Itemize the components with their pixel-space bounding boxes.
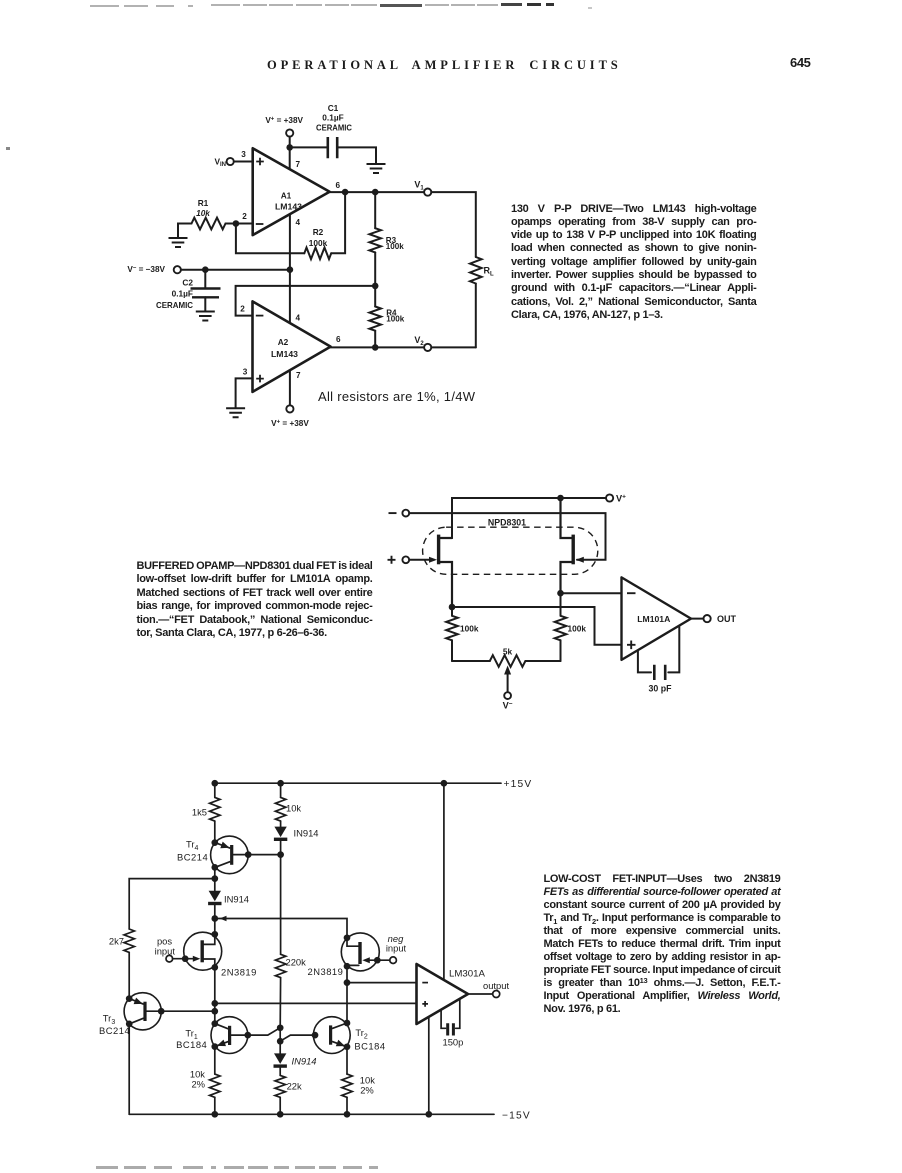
NPD8301 dual-FET package (dashed) bbox=[423, 527, 598, 574]
svg-text:LM101A: LM101A bbox=[637, 615, 670, 624]
svg-text:input: input bbox=[155, 946, 176, 957]
svg-text:−15V: −15V bbox=[502, 1110, 531, 1121]
wire Tr4 base bbox=[233, 854, 280, 856]
caption 3: LOW-COST FET-INPUT bbox=[544, 873, 781, 1016]
svg-text:4: 4 bbox=[296, 314, 301, 323]
resistor 100k (left) bbox=[451, 607, 453, 616]
wire Tr1 base bbox=[231, 1028, 280, 1035]
node neg source bbox=[344, 979, 351, 986]
svg-text:V+: V+ bbox=[616, 494, 626, 504]
svg-text:Tr4: Tr4 bbox=[186, 839, 199, 853]
svg-text:LM301A: LM301A bbox=[449, 969, 486, 979]
node right source bbox=[557, 590, 564, 597]
wire bbox=[214, 867, 216, 890]
ground (A2 pin3) bbox=[226, 408, 245, 417]
V+ terminal (bottom, +38V) bbox=[286, 405, 293, 412]
capacitor C2 0.1uF ceramic bbox=[204, 270, 206, 288]
terminal V1 bbox=[424, 189, 431, 196]
JFET left half NPD8301 bbox=[437, 535, 440, 565]
V+ rail bbox=[452, 498, 606, 538]
node C2 tap bbox=[202, 266, 209, 273]
svg-text:V−: V− bbox=[503, 701, 513, 711]
wire to LM301A inv input bbox=[347, 982, 417, 984]
wire A2 inverting loop bbox=[236, 286, 376, 316]
terminal V2 bbox=[424, 344, 431, 351]
neg input terminal bbox=[390, 957, 397, 964]
svg-text:22k: 22k bbox=[287, 1081, 302, 1092]
wire bbox=[374, 192, 376, 228]
pot wiper arrow bbox=[507, 670, 509, 692]
wire output A2 (V2 line) bbox=[331, 346, 425, 348]
svg-text:Tr3: Tr3 bbox=[103, 1013, 116, 1027]
wire to 2k7 branch bbox=[129, 879, 215, 929]
wire drain rail bbox=[215, 919, 347, 938]
node A1 out / R2 bbox=[342, 189, 349, 196]
svg-text:OUT: OUT bbox=[717, 614, 737, 624]
svg-text:RL: RL bbox=[484, 266, 495, 278]
wire - input to right gate bbox=[409, 513, 605, 560]
wire output bbox=[468, 993, 493, 995]
node Tr4 base / diode bbox=[277, 851, 284, 858]
diode IN914 (top) bbox=[274, 827, 286, 838]
svg-text:IN914: IN914 bbox=[294, 828, 319, 839]
svg-text:100k: 100k bbox=[386, 315, 405, 324]
resistor 10k (top) bbox=[280, 783, 282, 797]
capacitor 150p bbox=[441, 1010, 446, 1029]
svg-text:10k: 10k bbox=[286, 803, 301, 814]
wire output A1 (V1 line) bbox=[330, 191, 425, 193]
wire feedback bbox=[236, 224, 304, 254]
OUT terminal bbox=[704, 615, 711, 622]
wire source rail to LM301A + input bbox=[215, 1002, 417, 1004]
svg-text:10k: 10k bbox=[196, 208, 210, 218]
diode IN914 (middle) bbox=[209, 891, 221, 902]
svg-text:VIN: VIN bbox=[214, 157, 226, 169]
svg-text:R1: R1 bbox=[198, 198, 209, 208]
transistor Tr2 BC184 bbox=[313, 1017, 350, 1054]
resistor 22k bbox=[275, 1075, 285, 1097]
svg-text:0.1µF: 0.1µF bbox=[322, 113, 343, 123]
node rail/10k bbox=[277, 780, 284, 787]
svg-text:V+ = +38V: V+ = +38V bbox=[265, 116, 303, 125]
node base coupling top bbox=[277, 1024, 284, 1031]
wire bbox=[337, 147, 376, 164]
pos input terminal bbox=[166, 955, 173, 962]
wire Tr3 collector to -15V bbox=[128, 1024, 130, 1114]
node: V+ / pin7 / C1 bbox=[286, 144, 293, 151]
op-amp A1 LM143 bbox=[253, 148, 330, 235]
svg-text:V+ = +38V: V+ = +38V bbox=[271, 419, 309, 428]
svg-text:150p: 150p bbox=[443, 1037, 464, 1048]
node right drain / V+ bbox=[557, 495, 564, 502]
wire pin 4 (V-) bbox=[289, 214, 291, 270]
resistor 2k7 bbox=[124, 929, 134, 952]
op-amp LM301A bbox=[417, 964, 469, 1024]
svg-text:LM143: LM143 bbox=[271, 349, 298, 359]
svg-text:220k: 220k bbox=[286, 957, 307, 968]
wire to Tr2 base bbox=[280, 1035, 315, 1041]
resistor R1 10k bbox=[192, 218, 226, 230]
wire output bbox=[691, 618, 704, 620]
svg-text:BC214: BC214 bbox=[99, 1025, 130, 1036]
wire pos gate bbox=[173, 958, 197, 960]
resistor 100k (right) bbox=[560, 593, 562, 616]
V+ terminal (top, +38V) bbox=[286, 129, 293, 136]
svg-text:3: 3 bbox=[243, 368, 248, 377]
svg-text:2N3819: 2N3819 bbox=[308, 966, 344, 977]
svg-text:7: 7 bbox=[296, 371, 301, 380]
svg-text:A1: A1 bbox=[281, 191, 292, 201]
wire V- rail bbox=[181, 269, 290, 271]
svg-text:IN914: IN914 bbox=[224, 894, 249, 905]
node base coupling bottom bbox=[277, 1038, 284, 1045]
wire pin 3 bbox=[234, 161, 253, 163]
wire right source to LM101A inv input bbox=[561, 592, 622, 594]
node pin2/R1/R2 bbox=[233, 220, 240, 227]
-15V rail bbox=[129, 1113, 494, 1115]
wire Tr3 base bbox=[147, 1010, 215, 1012]
svg-text:0.1µF: 0.1µF bbox=[172, 289, 193, 299]
svg-text:V− = −38V: V− = −38V bbox=[127, 265, 165, 274]
+15V rail bbox=[215, 782, 501, 784]
wire left source to LM101A + input bbox=[452, 607, 622, 645]
resistor RL (load) bbox=[470, 257, 482, 284]
node V1 / R3 bbox=[372, 189, 379, 196]
wire bbox=[289, 137, 291, 148]
wire LM301A V- pin bbox=[428, 1017, 430, 1114]
wire + input to left gate bbox=[409, 559, 434, 561]
diode IN914 (bottom) bbox=[279, 1041, 281, 1053]
wire bbox=[374, 252, 376, 286]
node V2 / R4 bbox=[372, 344, 379, 351]
resistor R3 100k bbox=[369, 228, 381, 252]
svg-text:30 pF: 30 pF bbox=[649, 684, 673, 694]
svg-text:100k: 100k bbox=[386, 242, 405, 251]
svg-text:3: 3 bbox=[241, 150, 246, 159]
ground (R1) bbox=[169, 238, 188, 247]
wire bbox=[331, 192, 345, 253]
page number 645 bbox=[790, 55, 811, 70]
VIN input terminal bbox=[227, 158, 234, 165]
svg-text:C2: C2 bbox=[182, 278, 193, 288]
wire bbox=[214, 919, 216, 935]
svg-text:C1: C1 bbox=[328, 103, 339, 113]
ground (C2) bbox=[196, 312, 215, 321]
svg-text:100k: 100k bbox=[309, 238, 328, 248]
wire pin 2 bbox=[236, 223, 253, 225]
JFET 2N3819 (neg input) bbox=[341, 933, 379, 971]
wire bbox=[431, 346, 476, 348]
svg-text:2N3819: 2N3819 bbox=[221, 967, 257, 978]
node drain rail bbox=[211, 915, 218, 922]
wire LM301A V+ pin bbox=[443, 783, 445, 980]
header title bbox=[267, 58, 622, 73]
svg-text:+15V: +15V bbox=[504, 779, 533, 790]
svg-text:LM143: LM143 bbox=[275, 202, 302, 212]
svg-text:V1: V1 bbox=[414, 180, 424, 192]
svg-text:6: 6 bbox=[336, 335, 341, 344]
svg-text:output: output bbox=[483, 980, 509, 991]
resistor 1k5 bbox=[214, 783, 216, 797]
wire neg gate bbox=[366, 959, 390, 961]
capacitor 30 pF bbox=[638, 650, 651, 672]
wire to RL bbox=[431, 192, 476, 257]
svg-text:100k: 100k bbox=[568, 624, 587, 634]
svg-text:CERAMIC: CERAMIC bbox=[156, 300, 193, 310]
wire neg source down to Tr2 bbox=[346, 983, 348, 1023]
node left source bbox=[449, 604, 456, 611]
V- terminal (pot) bbox=[504, 692, 511, 699]
svg-text:6: 6 bbox=[336, 181, 341, 190]
svg-text:7: 7 bbox=[296, 160, 301, 169]
transistor Tr3 BC214 bbox=[124, 993, 161, 1030]
svg-text:A2: A2 bbox=[278, 337, 289, 347]
V+ terminal bbox=[606, 494, 613, 501]
resistor R2 100k bbox=[304, 248, 331, 260]
svg-text:4: 4 bbox=[296, 218, 301, 227]
svg-text:5k: 5k bbox=[503, 647, 513, 657]
svg-text:CERAMIC: CERAMIC bbox=[316, 122, 352, 132]
resistor 10k 2% (right) bbox=[346, 1047, 348, 1074]
resistor R4 100k bbox=[374, 286, 376, 307]
node pin4 rail bbox=[287, 266, 294, 273]
op-amp LM101A bbox=[622, 577, 692, 660]
wire bbox=[290, 146, 328, 148]
wire pin 3 A2 bbox=[236, 378, 253, 408]
scan artifact dashes (top) bbox=[90, 5, 119, 7]
svg-text:2%: 2% bbox=[360, 1085, 374, 1096]
ground (C1) bbox=[367, 164, 386, 173]
svg-text:input: input bbox=[386, 942, 407, 953]
svg-text:V2: V2 bbox=[414, 335, 424, 347]
svg-text:1k5: 1k5 bbox=[192, 807, 207, 818]
caption 2: BUFFERED OPAMP bbox=[137, 560, 373, 641]
"All resistors" note bbox=[318, 389, 475, 404]
transistor Tr4 BC214 bbox=[211, 836, 249, 874]
svg-text:2: 2 bbox=[240, 305, 245, 314]
wire pin 7 A2 bbox=[289, 370, 291, 405]
node pos source rail bbox=[211, 1000, 218, 1007]
svg-text:Tr2: Tr2 bbox=[355, 1027, 368, 1041]
JFET right half NPD8301 bbox=[572, 535, 575, 565]
svg-text:BC184: BC184 bbox=[176, 1039, 207, 1050]
wire pin 7 A1 bbox=[289, 147, 291, 169]
node rail/LM301A V+ bbox=[441, 780, 448, 787]
node R3/R4 bbox=[372, 283, 379, 290]
svg-text:NPD8301: NPD8301 bbox=[488, 517, 526, 527]
"-" input terminal bbox=[402, 510, 409, 517]
JFET 2N3819 (pos input) bbox=[184, 932, 222, 970]
resistor 220k bbox=[280, 855, 282, 955]
svg-text:BC214: BC214 bbox=[177, 852, 208, 863]
transistor Tr1 BC184 bbox=[211, 1017, 248, 1054]
svg-text:2: 2 bbox=[242, 212, 247, 221]
svg-text:IN914: IN914 bbox=[292, 1056, 317, 1067]
svg-text:2k7: 2k7 bbox=[109, 936, 124, 947]
capacitor C1 0.1uF ceramic bbox=[328, 137, 337, 158]
wire pin 4 A2 bbox=[289, 270, 291, 323]
svg-text:R2: R2 bbox=[313, 227, 324, 237]
op-amp A2 LM143 bbox=[253, 301, 331, 392]
node rail/1k5 bbox=[211, 780, 218, 787]
svg-text:2%: 2% bbox=[191, 1079, 205, 1090]
svg-text:BC184: BC184 bbox=[354, 1041, 385, 1052]
resistor 10k 2% (left) bbox=[214, 1047, 216, 1075]
"+" input terminal bbox=[402, 556, 409, 563]
scan artifact dashes (bottom) bbox=[96, 1166, 118, 1169]
output terminal bbox=[493, 991, 500, 998]
svg-text:100k: 100k bbox=[460, 624, 479, 634]
potentiometer 5k bbox=[452, 660, 490, 662]
caption 1: 130 V P-P DRIVE bbox=[511, 203, 757, 323]
V- terminal (-38V) bbox=[174, 266, 181, 273]
